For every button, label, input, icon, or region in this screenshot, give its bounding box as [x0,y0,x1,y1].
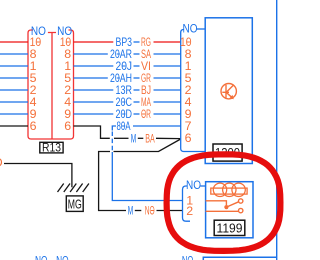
label dash [134,89,140,91]
wire to R13 left pin 1 [0,65,28,67]
designator 1199 box [214,220,245,235]
svg-text:NO: NO [182,253,194,260]
wire to R13 left pin 8 [0,53,28,55]
R13 designator box [40,142,63,153]
label dash [134,53,140,55]
svg-text:NO: NO [186,178,201,192]
wire to R13 left pin 4 [0,101,28,103]
label dash [138,137,144,139]
svg-text:NO: NO [183,22,198,36]
label dash [134,65,140,67]
barred O [142,113,145,115]
label zero bar [117,53,120,55]
dashed wire segment [111,132,113,153]
wire 20C-MA right segment [154,101,181,103]
pin 10 zero bar [66,41,69,43]
svg-text:MG: MG [68,196,82,211]
wire 20D-OR left segment [74,113,114,115]
label dash [134,77,140,79]
label dash [134,113,140,115]
label zero bar [122,113,125,115]
pin 10 zero bar [187,41,190,43]
wire drop to relay pin 1 [112,152,182,201]
connector R13 outline (left half bracket) [28,30,52,139]
label zero bar [122,101,125,103]
bottom component box [203,257,277,260]
black wire M-BA from R13 pin 6 [74,126,110,138]
wire to R13 left pin 5 [0,77,28,79]
label zero bar [122,65,125,67]
wire 13R-BJ right segment [154,89,181,91]
black wire M-NO from box pin 6 to relay pin 2 [114,139,181,152]
wire 20AH-GR left segment [74,77,108,79]
designator 1200 box [213,144,242,161]
svg-text:6: 6 [185,131,192,145]
relay coil [211,183,247,196]
wire to R13 left pin 2 [0,89,28,91]
K symbol [221,84,236,100]
svg-text:O: O [0,156,3,170]
pin 10 zero bar [37,41,40,43]
wire 80A label bracket [112,126,116,131]
connector bracket of 1200 [181,30,206,152]
connector R13 outline (right half bracket) [52,30,74,139]
svg-text:6: 6 [30,119,37,133]
wire 20AH-GR right segment [154,77,181,79]
svg-text:BA: BA [145,132,155,146]
label zero bar [122,125,125,127]
label dash [135,210,142,212]
wire 20J-VI left segment [74,65,114,67]
svg-text:6: 6 [64,119,71,133]
vertical trunk wire [276,0,278,260]
svg-text:1199: 1199 [217,220,243,235]
component 1200 box [205,18,252,164]
wire 20C-MA left segment [74,101,114,103]
svg-text:NO: NO [56,254,69,260]
wire 80A to pin 7 [133,125,181,127]
wire 13R-BJ left segment [74,89,114,91]
wire 20AR-SA right segment [154,53,181,55]
wire to R13 left pin 6 [0,125,28,127]
relay 1199 box [206,182,253,238]
relay switch contact [206,199,243,213]
connector R13 middle divider [48,33,56,140]
label zero bar [117,77,120,79]
svg-text:NO: NO [35,254,48,260]
wire BA to box pin 6 [156,137,181,139]
wire BP3-RG left segment [74,41,114,43]
wire to R13 left pin 9 [0,113,28,115]
NO label dash [200,185,205,187]
svg-text:M: M [131,132,137,146]
svg-text:M: M [128,204,134,218]
ground MG box [66,196,83,212]
label dash [134,101,140,103]
highlight circle [167,154,281,251]
barred O [151,210,154,212]
svg-text:2: 2 [186,204,193,218]
wire BP3-RG right segment [154,41,181,43]
wire 20J-VI right segment [154,65,181,67]
ground symbol hatching [58,184,64,193]
wire to R13 left pin 10 [0,41,28,43]
NO label dash [197,28,205,30]
label dash [134,41,140,43]
connector bracket of 1199 [183,186,191,221]
svg-text:R13: R13 [42,140,61,154]
wire 20AR-SA left segment [74,53,108,55]
wire 20D-OR right segment [154,113,181,115]
